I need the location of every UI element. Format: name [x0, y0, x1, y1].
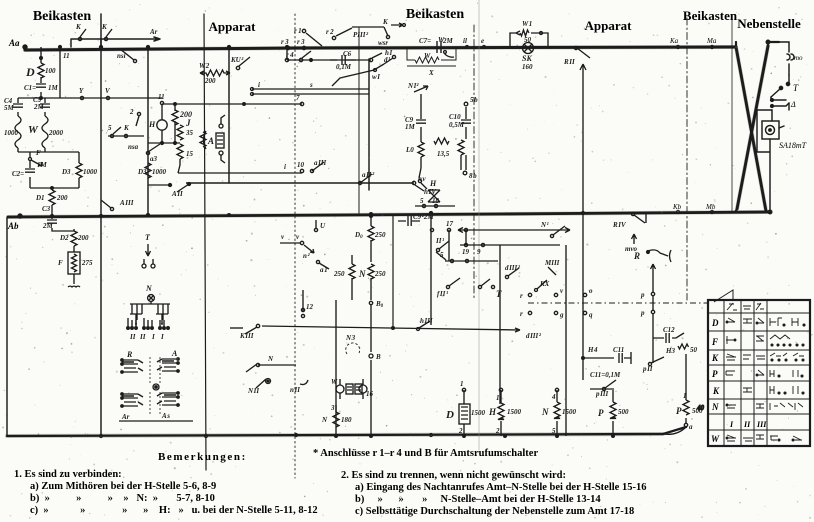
svg-text:H: H: [429, 179, 437, 188]
svg-text:D3: D3: [137, 168, 147, 176]
resistor W left 1000: [4, 116, 21, 152]
svg-text:a) Zum Mithören bei der H-Stel: a) Zum Mithören bei der H-Stelle 5-6, 8-…: [30, 481, 216, 492]
capacitor C6 0,1M: [330, 50, 356, 71]
svg-text:100: 100: [45, 67, 56, 75]
svg-text:P: P: [712, 369, 718, 379]
wire: chain D-C1 from bus: [40, 47, 43, 98]
svg-text:N II: N II: [247, 387, 259, 395]
contact AII: [171, 183, 191, 199]
svg-text:1000: 1000: [152, 168, 167, 176]
contact NI lever: [540, 221, 565, 238]
svg-text:d III ²: d III ²: [505, 264, 521, 272]
svg-text:KU ²: KU ²: [230, 56, 244, 64]
svg-text:V: V: [105, 87, 111, 95]
svg-text:1M: 1M: [405, 123, 416, 131]
svg-text:a3: a3: [150, 155, 158, 163]
svg-text:II: II: [129, 333, 136, 341]
jack assembly Ar: [121, 393, 143, 421]
node 5b: [464, 96, 478, 106]
contact wI step: [332, 64, 384, 86]
svg-text:g: g: [559, 311, 564, 319]
wire: x148 stub at y185: [148, 184, 172, 187]
svg-text:5 b: 5 b: [470, 96, 478, 104]
relay F box 275: [58, 252, 93, 274]
svg-text:200: 200: [56, 194, 68, 202]
svg-text:Beikasten: Beikasten: [683, 8, 738, 23]
wire: vertical x=229: [228, 47, 230, 183]
svg-text:I: I: [729, 420, 734, 429]
contact T with dot: [771, 82, 790, 97]
svg-text:KX: KX: [539, 280, 550, 288]
wire: left border vertical: [6, 218, 8, 436]
contact N y365: [246, 355, 296, 372]
svg-text:III: III: [756, 420, 767, 429]
capacitor C7 2M in bus: [419, 37, 454, 53]
svg-text:A II: A II: [171, 190, 183, 198]
svg-text:Ar: Ar: [149, 28, 158, 36]
svg-text:1. Es sind zu verbinden:: 1. Es sind zu verbinden:: [14, 469, 122, 480]
svg-text:B0: B0: [375, 300, 384, 309]
svg-text:F: F: [36, 149, 41, 157]
svg-text:v: v: [560, 287, 564, 295]
capacitor C12: [653, 326, 684, 343]
wire: bottom long rail: [7, 427, 686, 436]
svg-text:q: q: [589, 311, 593, 319]
svg-text:C10: C10: [449, 113, 461, 121]
svg-text:C6: C6: [343, 50, 352, 58]
wire: bend into X top: [736, 42, 779, 47]
contact A pair: [771, 99, 789, 108]
wire: y328 long line: [262, 215, 542, 340]
table vertical grid: [724, 300, 767, 446]
svg-text:s: s: [309, 81, 313, 89]
svg-text:W: W: [331, 378, 338, 386]
contact r1 above bus: [294, 27, 322, 46]
svg-text:B: B: [375, 353, 381, 361]
table row K symbols: [726, 353, 804, 361]
bus ticks e H: [463, 37, 486, 49]
svg-text:W: W: [711, 434, 720, 444]
wire: y261 line: [436, 251, 498, 263]
svg-text:N ¹: N ¹: [540, 221, 549, 229]
svg-text:Ka: Ka: [669, 37, 679, 45]
contact r2 above bus: [326, 28, 352, 40]
svg-text:5: 5: [420, 197, 424, 205]
wire: section separator x=203: [204, 14, 206, 470]
contact aIII y171: [310, 159, 326, 173]
node Ab: [18, 214, 22, 218]
svg-text:Ab: Ab: [7, 221, 19, 231]
svg-text:F: F: [711, 337, 718, 347]
contact RIII under bus right: [612, 212, 646, 229]
node a top right: [766, 40, 772, 214]
contact N12 arrow top: [407, 82, 428, 92]
resistor 35: [177, 125, 194, 140]
svg-text:1M: 1M: [48, 84, 59, 92]
svg-text:Apparat: Apparat: [585, 18, 633, 33]
wire: vertical x60 bus to y98: [59, 46, 70, 98]
capacitor C9II 2M: [398, 213, 434, 226]
bus tick circles r3: [286, 46, 305, 49]
svg-text:50: 50: [690, 346, 698, 354]
contact b below bus: [438, 36, 454, 57]
svg-text:Aa: Aa: [8, 38, 20, 48]
bowtie contact H: [428, 179, 440, 202]
svg-text:T: T: [145, 233, 151, 242]
svg-text:A: A: [171, 349, 178, 358]
jack center hub: [150, 357, 160, 414]
svg-text:2: 2: [458, 427, 463, 435]
svg-text:500: 500: [618, 408, 629, 416]
svg-text:N I²: N I²: [407, 82, 419, 90]
relay P2 500: [663, 354, 703, 434]
contact pIII lower: [590, 380, 616, 398]
svg-text:1: 1: [460, 380, 464, 388]
capacitor C4: [4, 97, 23, 112]
svg-text:i: i: [284, 163, 286, 171]
svg-text:R: R: [126, 350, 133, 359]
transformer W1 bridge: [510, 20, 548, 47]
contact v y243: [280, 233, 304, 245]
contacts p pair right: [640, 264, 656, 363]
svg-text:C12: C12: [663, 326, 675, 334]
node ticks on right buses: [99, 45, 713, 437]
svg-text:13,5: 13,5: [437, 150, 450, 158]
contact II1: [435, 237, 449, 252]
svg-text:0,1M: 0,1M: [336, 63, 352, 71]
resistor H3 50: [665, 344, 698, 355]
wire: mic junction: [148, 142, 180, 145]
svg-text:C11: C11: [613, 346, 624, 354]
svg-text:T: T: [793, 83, 799, 93]
svg-text:5M: 5M: [4, 104, 15, 112]
wire: crossover X diagonal 2: [737, 46, 768, 209]
resistor 250 left: [333, 255, 366, 300]
contact a3: [146, 144, 160, 163]
resistor bridge X under bus: [407, 47, 456, 77]
svg-text:D: D: [711, 318, 719, 328]
svg-text:* Anschlüsse r 1–r 4 und B für: * Anschlüsse r 1–r 4 und B für Amtsrufum…: [313, 448, 538, 459]
table row N symbols: [726, 403, 803, 410]
jack bank base line: [119, 361, 193, 421]
svg-text:W 2: W 2: [199, 62, 210, 70]
svg-text:19: 19: [462, 248, 470, 256]
resistor N 180: [321, 404, 352, 427]
svg-text:W: W: [424, 52, 431, 60]
svg-text:275: 275: [81, 259, 93, 267]
svg-text:nsa: nsa: [128, 143, 139, 151]
wire: y104 line: [162, 94, 304, 106]
svg-text:4: 4: [551, 393, 556, 401]
wire: bus bleed shadows: [7, 46, 770, 436]
coil mo at far right: [779, 42, 794, 75]
svg-text:Ar: Ar: [121, 413, 130, 421]
svg-text:1M: 1M: [37, 161, 48, 169]
svg-text:0,5M: 0,5M: [449, 121, 465, 129]
contact nsa: [108, 124, 144, 151]
capacitor C10: [449, 107, 471, 170]
svg-text:R IV: R IV: [612, 221, 627, 229]
capacitor C5: [33, 96, 50, 111]
svg-text:40: 40: [696, 404, 705, 412]
svg-text:Ma: Ma: [706, 37, 717, 45]
svg-text:2. Es sind zu trennen, wenn ni: 2. Es sind zu trennen, wenn nicht gewüns…: [341, 470, 566, 481]
svg-text:5: 5: [552, 427, 556, 435]
contact R arrow: [633, 250, 671, 262]
resistor 1000 on x148: [137, 163, 167, 178]
jack assembly As: [157, 392, 179, 420]
svg-text:PIII ²: PIII ²: [353, 31, 369, 39]
svg-text:Kb: Kb: [672, 203, 682, 211]
resistor D2 200: [59, 229, 89, 252]
svg-text:17: 17: [446, 220, 454, 228]
contact hIII on y328: [417, 317, 433, 331]
resistor 250 right: [368, 264, 386, 300]
svg-text:D3: D3: [61, 168, 71, 176]
svg-text:I: I: [160, 333, 164, 341]
svg-text:8 b: 8 b: [469, 172, 477, 180]
svg-text:200: 200: [204, 77, 216, 85]
contact a1: [316, 260, 329, 274]
wire: y183 long line: [186, 182, 414, 184]
svg-text:T: T: [496, 289, 502, 299]
relay N comb: [127, 284, 170, 341]
microphone H: [148, 93, 167, 145]
contact hIV bottom: [418, 168, 437, 196]
wire: section separator dash-dot x=474: [473, 25, 475, 300]
svg-text:il: il: [463, 37, 467, 45]
svg-text:12: 12: [306, 303, 314, 311]
svg-text:v: v: [296, 233, 300, 241]
svg-text:N 3: N 3: [345, 334, 356, 342]
svg-text:D2: D2: [59, 234, 69, 242]
svg-text:II: II: [743, 420, 751, 429]
mic 16 pair: [355, 379, 374, 399]
svg-text:2000: 2000: [48, 129, 64, 137]
svg-text:A s: A s: [161, 412, 170, 420]
svg-text:P: P: [598, 408, 604, 418]
svg-text:II ¹: II ¹: [435, 237, 444, 245]
svg-text:180: 180: [341, 416, 352, 424]
svg-text:wsr: wsr: [378, 39, 388, 47]
wire: top sub line with arrow: [71, 37, 160, 47]
jack assembly A: [157, 349, 179, 372]
contact nII: [290, 380, 308, 394]
svg-text:A III: A III: [119, 199, 134, 207]
resistor L0: [405, 142, 424, 157]
svg-text:7: 7: [296, 94, 300, 102]
wire: y173 line: [178, 161, 305, 173]
relay D box: [445, 380, 497, 436]
svg-text:5: 5: [108, 124, 112, 132]
wire: crossover X diagonal 1: [736, 47, 766, 211]
svg-text:c) » »: c) » » » » H: » u. bei der N-Stelle 5-11…: [30, 505, 318, 516]
svg-text:250: 250: [374, 270, 386, 278]
wire: y98 line: [18, 87, 162, 100]
wire: join C2 D3: [30, 187, 79, 190]
contact nsi on bus: [117, 49, 137, 63]
svg-text:r: r: [520, 292, 523, 300]
capacitor C3 below bus: [42, 205, 74, 231]
svg-text:n ²: n ²: [303, 252, 310, 260]
wire: x371 down to B: [336, 300, 371, 436]
contact NII circle: [247, 379, 271, 396]
svg-text:K: K: [75, 23, 82, 31]
contacts 19: [462, 243, 485, 256]
svg-text:W: W: [438, 36, 445, 44]
svg-text:15: 15: [186, 150, 194, 158]
svg-text:p: p: [640, 291, 645, 299]
relay N resistor 1500: [541, 388, 577, 436]
svg-text:II: II: [139, 333, 146, 341]
svg-text:250: 250: [333, 270, 345, 278]
resistor right small: [458, 140, 464, 170]
svg-text:H 4: H 4: [587, 346, 598, 354]
contact RII: [563, 46, 590, 66]
resistor 200 vertical: [172, 103, 192, 143]
svg-text:A: A: [207, 136, 214, 146]
relay P resistor 500: [598, 390, 629, 436]
svg-text:K: K: [123, 124, 130, 132]
resistor 15: [177, 144, 194, 165]
svg-text:n II: n II: [290, 386, 300, 394]
resistor W right 2000: [28, 116, 64, 152]
svg-text:J: J: [185, 118, 191, 128]
capacitor C2 1M: [12, 161, 48, 188]
capacitor C11: [583, 346, 631, 379]
jack assembly R: [121, 350, 143, 373]
svg-text:3: 3: [330, 404, 335, 412]
svg-text:H3: H3: [665, 347, 675, 355]
svg-text:i: i: [258, 81, 260, 89]
svg-text:D0: D0: [354, 231, 363, 240]
contact MIII: [544, 259, 560, 275]
svg-text:o: o: [589, 287, 593, 295]
svg-text:a: a: [689, 423, 693, 431]
svg-text:K: K: [711, 353, 719, 363]
wire: bend at X bottom: [735, 209, 770, 212]
contact pII: [642, 357, 664, 373]
svg-text:C7=: C7=: [419, 37, 431, 45]
wire: verticals x431 x500: [430, 212, 501, 405]
svg-text:r: r: [520, 310, 523, 318]
table row F symbols: [726, 335, 804, 346]
svg-text:a III: a III: [314, 159, 327, 167]
node Bo: [369, 300, 383, 309]
svg-text:h IV: h IV: [424, 188, 437, 196]
svg-text:1500: 1500: [471, 409, 486, 417]
svg-text:Mb: Mb: [705, 203, 716, 211]
dial SK 160: [522, 43, 534, 72]
relay H resistor 1500: [495, 388, 522, 436]
svg-text:11: 11: [158, 93, 165, 101]
resistor D3 1000: [45, 152, 98, 188]
svg-text:L0: L0: [405, 146, 414, 154]
svg-text:Bemerkungen:: Bemerkungen:: [158, 451, 247, 463]
table row W symbols: [726, 435, 802, 441]
wire: vertical x=148: [147, 47, 149, 216]
svg-text:10: 10: [297, 161, 305, 169]
svg-text:nsi: nsi: [117, 52, 126, 60]
contact n2: [303, 245, 314, 260]
mic W pair: [331, 378, 353, 399]
wire: branch verticals to C4 C5: [18, 98, 45, 116]
svg-text:C2=: C2=: [12, 170, 24, 178]
resistor W2 200 wavy: [199, 62, 230, 85]
svg-text:mo: mo: [794, 54, 803, 62]
svg-text:Δ: Δ: [790, 100, 796, 109]
contacts 12 pair: [301, 290, 313, 318]
contact gIII2: [505, 264, 521, 279]
svg-text:e: e: [481, 37, 484, 45]
svg-text:X: X: [428, 69, 434, 77]
wire: vertical x=369: [368, 59, 370, 190]
svg-text:N: N: [267, 355, 274, 363]
svg-text:2M: 2M: [33, 103, 45, 111]
svg-text:c) Selbsttätige Durchschaltung: c) Selbsttätige Durchschaltung der Neben…: [355, 506, 634, 517]
table row P symbols: [726, 370, 803, 377]
svg-text:D1: D1: [35, 194, 45, 202]
wire: drop from bus to r3 r4 row: [281, 38, 371, 60]
coil ground below F: [68, 274, 80, 287]
svg-text:Apparat: Apparat: [209, 19, 257, 34]
svg-text:C3: C3: [42, 205, 51, 213]
svg-text:r 3: r 3: [281, 38, 289, 46]
svg-text:r 2: r 2: [326, 28, 334, 36]
contact fII1: [437, 278, 460, 298]
svg-text:r 4: r 4: [286, 51, 294, 59]
svg-text:U: U: [320, 222, 326, 230]
paper crease x=479: [478, 0, 480, 450]
contact KX: [535, 280, 550, 292]
svg-text:K: K: [382, 18, 389, 26]
svg-text:10: 10: [432, 197, 440, 205]
contact KUII: [230, 56, 250, 70]
svg-text:N: N: [358, 269, 366, 279]
svg-text:K: K: [101, 23, 108, 31]
table row K2 symbols: [743, 386, 804, 394]
svg-text:2: 2: [129, 108, 134, 116]
table header symbols: [727, 303, 764, 310]
svg-text:I: I: [151, 333, 155, 341]
svg-text:D: D: [25, 65, 35, 79]
svg-text:R II: R II: [563, 58, 575, 66]
svg-text:b) » » » N-: b) » » » N-Stelle–Amt bei der H-Stelle 1…: [355, 494, 601, 505]
svg-text:160: 160: [522, 63, 533, 71]
node B with dashed N3: [345, 334, 381, 361]
wire: y230 line with arrows: [458, 228, 570, 233]
table row D symbols: [726, 318, 805, 326]
svg-text:250: 250: [374, 231, 386, 239]
svg-text:C11=0,1M: C11=0,1M: [590, 371, 621, 379]
wire: double lines y89 y94: [251, 81, 370, 96]
svg-text:N: N: [145, 284, 153, 293]
socket SA18mT box: [762, 121, 784, 139]
contact hI: [384, 49, 396, 64]
contact KIII: [230, 324, 260, 340]
contact row rvo: [520, 287, 593, 300]
svg-text:MIII: MIII: [544, 259, 560, 267]
table frame: [708, 300, 810, 446]
pulse symbol T: [142, 233, 155, 268]
wire: y245 line: [460, 244, 560, 246]
svg-text:a) Eingang des Nachtanrufes Am: a) Eingang des Nachtanrufes Amt–N-Stelle…: [355, 482, 646, 493]
wire: top main bus Aa: [25, 47, 736, 50]
contacts r4 row: [285, 51, 312, 62]
wire: x583 arrow top: [580, 64, 586, 380]
wire: lead into table: [528, 290, 733, 303]
svg-text:h I: h I: [385, 49, 392, 57]
